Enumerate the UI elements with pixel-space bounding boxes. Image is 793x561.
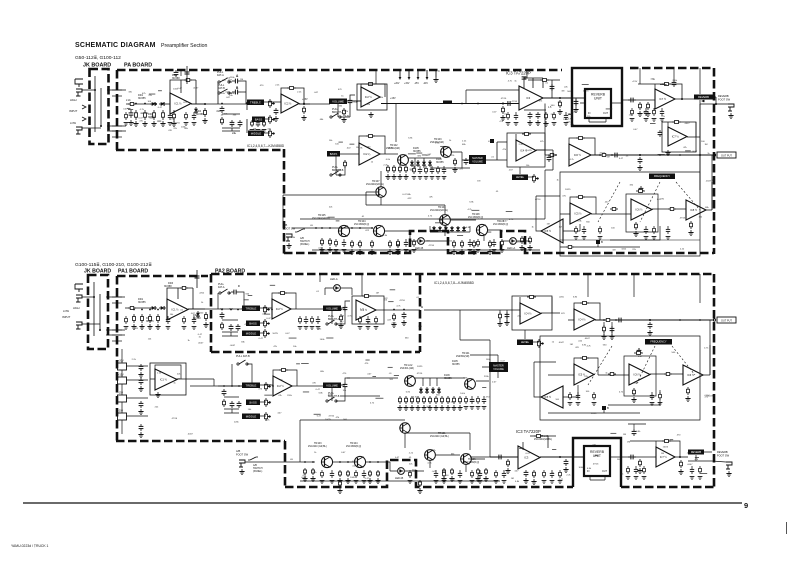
diode fsw 5 bbox=[456, 226, 460, 232]
ground IC7b bbox=[665, 150, 670, 155]
switch bright A (bottom) bbox=[326, 320, 337, 325]
volume wiring bbox=[338, 95, 361, 117]
regulator box 4 bbox=[118, 413, 127, 420]
ground fsw net 2 bbox=[327, 247, 332, 252]
switch FAT-B (bottom) bbox=[237, 360, 248, 365]
resistor IC7 fb (bottom) bbox=[662, 440, 671, 443]
reverb drive link (top) bbox=[466, 90, 519, 103]
gnd bottom input 4 bbox=[155, 324, 160, 329]
ground ab foot (top) bbox=[286, 243, 291, 248]
ground fsw net 10 bbox=[471, 249, 476, 254]
svg-text:IC6 ½: IC6 ½ bbox=[634, 373, 642, 377]
svg-text:PULL FAT-B: PULL FAT-B bbox=[236, 355, 250, 358]
right bus vertical (bottom) bbox=[709, 320, 711, 375]
transistor TR104 (top) bbox=[373, 225, 384, 236]
IC4a outline box (bottom) bbox=[512, 296, 552, 330]
svg-text:IC1 ½: IC1 ½ bbox=[175, 102, 183, 106]
resistor tone R1 bbox=[221, 117, 224, 125]
gnd fsw bottom 10 bbox=[483, 476, 488, 481]
BASS box (top chB) bbox=[327, 151, 340, 157]
transistor TR101 fsw (bottom) bbox=[400, 423, 410, 433]
svg-text:1M: 1M bbox=[511, 478, 514, 480]
svg-text:47/16: 47/16 bbox=[488, 141, 494, 143]
LED-A (top) bbox=[507, 238, 516, 250]
wire ab to TR row bbox=[292, 227, 316, 229]
drop row reverb extra (bottom) bbox=[626, 466, 703, 479]
IC6a fb bbox=[569, 138, 595, 155]
svg-text:IC7 ½: IC7 ½ bbox=[659, 97, 667, 101]
resistor filter top (bottom) bbox=[634, 352, 643, 355]
tone box wiring bbox=[247, 102, 281, 133]
op-amp IC6 1/2 bbox=[569, 144, 591, 166]
capacitor chA tone2 bbox=[229, 324, 234, 331]
junction dots bottom chB bus bbox=[223, 385, 274, 387]
TREBLE pot box (top) bbox=[247, 100, 264, 106]
wire chA final bbox=[376, 309, 420, 311]
svg-text:47/16: 47/16 bbox=[511, 101, 517, 103]
fsw gnd rail (top) bbox=[312, 249, 540, 251]
capacitor IC3 in bbox=[505, 101, 513, 106]
IC1 2/2 wires bbox=[150, 365, 190, 379]
capacitor IC4a out bbox=[547, 155, 552, 162]
svg-text:1M: 1M bbox=[477, 181, 480, 183]
svg-text:2SC1509(R,Q): 2SC1509(R,Q) bbox=[346, 446, 361, 448]
value labels reverb area (top) bbox=[570, 80, 711, 161]
ground foot jack bbox=[728, 113, 733, 118]
svg-text:IC5 ½: IC5 ½ bbox=[544, 229, 552, 233]
resistor fsw bottom 9 bbox=[477, 468, 480, 475]
chB fat wiring (bottom) bbox=[218, 364, 252, 386]
REVERB pot box (top) bbox=[694, 95, 713, 100]
resistor IC1 load (bottom) bbox=[205, 312, 208, 321]
diode D102 (bottom) bbox=[159, 306, 166, 310]
MASTER VOLUME box (top) bbox=[469, 155, 486, 164]
resistor chB bottom net 1 bbox=[399, 396, 402, 404]
op-amp IC8 filter out bbox=[686, 200, 706, 220]
chB long bias wire (bottom) bbox=[340, 395, 380, 397]
capacitor stack (bottom block) bbox=[196, 270, 198, 288]
svg-text:FOOT SW: FOOT SW bbox=[236, 453, 249, 457]
resistor filter out bbox=[668, 208, 676, 211]
svg-text:47/16: 47/16 bbox=[328, 416, 334, 418]
ground input net 2 bbox=[142, 121, 147, 126]
gnd fsw bottom 3 bbox=[337, 478, 342, 483]
svg-text:IC2 ½: IC2 ½ bbox=[277, 384, 285, 388]
pot reverb (top) bbox=[700, 100, 705, 103]
PA board bottom edge (bottom) bbox=[285, 460, 573, 487]
wire FAT bus bbox=[218, 103, 247, 105]
wire IC3 to reverb unit bbox=[572, 97, 585, 99]
svg-text:47/16: 47/16 bbox=[174, 123, 180, 125]
ground fsw net 11 bbox=[487, 249, 492, 254]
value labels volume stage (top) bbox=[314, 89, 384, 121]
ground input net 4 bbox=[160, 121, 165, 126]
svg-text:LEVEL: LEVEL bbox=[516, 175, 525, 179]
ground fsw net 8 bbox=[451, 249, 456, 254]
value labels pass2 fsw (bottom) bbox=[302, 450, 455, 482]
ground reg 4 bbox=[138, 432, 143, 437]
fsw gnd rail (bottom) bbox=[300, 480, 500, 482]
IC2a feedback bbox=[281, 88, 310, 104]
ground chB net 4 bbox=[403, 174, 408, 179]
svg-text:1M: 1M bbox=[426, 241, 429, 243]
op-amp IC2 2/2 chB bbox=[359, 143, 380, 165]
wire reverb out (bottom) bbox=[610, 456, 656, 458]
tie line mid (bottom) bbox=[460, 310, 490, 457]
op-amp IC4 1/2 (bottom) bbox=[520, 303, 541, 324]
resistor fsw net 2 bbox=[329, 238, 332, 246]
wire JK vertical 1 bbox=[94, 76, 96, 132]
capacitor FAT B bbox=[232, 90, 241, 95]
op-amp IC1 1/2 (bottom) bbox=[167, 299, 188, 320]
transistor TR102 (bottom) bbox=[405, 376, 416, 387]
svg-text:10/25: 10/25 bbox=[663, 446, 669, 448]
svg-text:Preamplifier Section: Preamplifier Section bbox=[161, 43, 208, 49]
junction dots fsw rows bbox=[304, 227, 379, 463]
resistor chB toner (bottom) bbox=[223, 399, 226, 407]
svg-text:.0047: .0047 bbox=[301, 477, 307, 479]
pot bass chA bbox=[264, 319, 271, 328]
svg-text:47/16: 47/16 bbox=[172, 418, 178, 420]
ground IC4b below bbox=[601, 334, 606, 339]
resistor IC4a fb (bottom) bbox=[527, 296, 536, 299]
diode fsw 4 bbox=[450, 226, 454, 232]
IC4 to fx wire bbox=[536, 149, 545, 151]
ground IC4b below2 bbox=[609, 334, 614, 339]
IC7a fb loop bbox=[638, 84, 682, 100]
resistor filter gnd2 (bottom) bbox=[687, 387, 690, 395]
diode chB clip 2 bbox=[416, 160, 420, 167]
IC4b below parts (bottom) bbox=[604, 322, 612, 336]
ground reverb drive (bottom) bbox=[563, 467, 568, 472]
supply dots (bottom) bbox=[628, 424, 646, 429]
regulator box 1 bbox=[118, 363, 127, 370]
value labels chB row (top) bbox=[329, 137, 467, 180]
svg-text:10/25: 10/25 bbox=[591, 413, 597, 415]
ground foot jack (bottom) bbox=[726, 471, 731, 476]
svg-text:REVERB: REVERB bbox=[698, 95, 709, 99]
input jack HIGH (bottom) bbox=[76, 295, 82, 302]
ground IC1b (bottom) bbox=[155, 392, 160, 397]
diode D104 (bottom) bbox=[196, 311, 200, 318]
resistor chB bottom net 4 bbox=[417, 396, 420, 404]
svg-text:IC1,2,4,5,6,7,8—KJM4558D: IC1,2,4,5,6,7,8—KJM4558D bbox=[434, 281, 475, 285]
svg-text:2SC1509(R,Q): 2SC1509(R,Q) bbox=[354, 224, 369, 226]
switch bright A bbox=[330, 113, 341, 118]
ground vol bbox=[341, 117, 346, 122]
capacitor IC7a fb bbox=[672, 80, 677, 87]
svg-text:UNIT: UNIT bbox=[593, 454, 601, 458]
gnd chB bottom net 2 bbox=[403, 405, 408, 410]
fx bottom wire (bottom) bbox=[548, 408, 640, 413]
svg-text:IS1588: IS1588 bbox=[172, 77, 180, 80]
reverb unit box (top) bbox=[585, 89, 611, 118]
resistor filter gnd2 bbox=[690, 221, 693, 229]
resistor IC1 bias bbox=[173, 112, 176, 120]
svg-text:B: B bbox=[607, 406, 609, 410]
value labels regulators (bottom) bbox=[132, 359, 194, 436]
resistor chB net 1 bbox=[387, 165, 390, 173]
svg-text:.0047: .0047 bbox=[149, 118, 155, 120]
resistor IC4 in (bottom) bbox=[499, 312, 502, 320]
capacitor C101 bbox=[129, 110, 134, 118]
fsw wires (bottom) bbox=[333, 433, 485, 472]
IC2b outline box bbox=[357, 84, 387, 110]
drop row fx extra (bottom) bbox=[568, 392, 663, 405]
chB vol wiring bbox=[336, 154, 345, 175]
power rail ticks bbox=[400, 70, 436, 79]
fx lower rail (top) bbox=[560, 239, 700, 241]
IC2b fb wire bbox=[361, 84, 385, 97]
wire JK to PA 2 bbox=[107, 125, 126, 127]
gnd chB bottom net 11 bbox=[457, 405, 462, 410]
svg-text:47/16: 47/16 bbox=[417, 373, 423, 375]
regulator wires bbox=[122, 349, 148, 434]
svg-text:TR106: TR106 bbox=[468, 458, 476, 461]
ground fsw net 3 bbox=[349, 249, 354, 254]
ground filter2 bbox=[688, 230, 693, 235]
capacitor FATA (bottom) bbox=[231, 290, 239, 295]
wire chB bus (bottom) bbox=[190, 385, 242, 387]
resistor IC7 in gnd (bottom) bbox=[639, 459, 642, 467]
value labels pass2 input (top) bbox=[123, 95, 189, 130]
ground chB net 1 bbox=[385, 174, 390, 179]
svg-text:MIDDLE: MIDDLE bbox=[251, 131, 262, 135]
svg-text:10/25: 10/25 bbox=[565, 189, 571, 191]
input jack LOW (bottom) bbox=[76, 322, 82, 329]
svg-text:LOW: LOW bbox=[63, 309, 69, 313]
resistor fsw net 6 bbox=[389, 240, 392, 248]
wire stubs TR (bottom) bbox=[365, 360, 486, 398]
reverb out pin wire bbox=[611, 102, 622, 104]
svg-text:BASS: BASS bbox=[249, 321, 257, 325]
capacitor filter top (bottom) bbox=[637, 348, 642, 355]
capacitor chB tone3 (bottom) bbox=[237, 401, 242, 408]
svg-text:LED-B: LED-B bbox=[395, 476, 403, 480]
svg-text:TR107: TR107 bbox=[372, 180, 380, 183]
resistor IC7 in gnd bbox=[639, 102, 642, 110]
svg-text:TR104: TR104 bbox=[358, 220, 366, 223]
gnd chB bottom net 10 bbox=[451, 405, 456, 410]
pin stubs PA left edge (bottom) bbox=[112, 297, 122, 341]
svg-text:10/25: 10/25 bbox=[417, 366, 423, 368]
resistor IC6a fb bbox=[576, 137, 585, 140]
wire stubs fsw (top) bbox=[328, 210, 513, 235]
supply drops (bottom) bbox=[320, 274, 700, 350]
ground out bbox=[637, 165, 642, 170]
svg-text:OUT: OUT bbox=[602, 470, 608, 473]
ground chB net 2 bbox=[391, 174, 396, 179]
IC3 top components bbox=[528, 80, 560, 98]
svg-text:IC6 ½: IC6 ½ bbox=[687, 373, 695, 377]
resistor IC2a load bbox=[303, 106, 306, 114]
MIDDLE box (chB bottom) bbox=[242, 414, 260, 420]
svg-text:OUT: OUT bbox=[603, 112, 609, 115]
svg-text:IS1555: IS1555 bbox=[138, 97, 146, 100]
svg-text:IS1555: IS1555 bbox=[413, 150, 421, 153]
pot bass (top) bbox=[269, 115, 276, 124]
diode fsw 2 bbox=[438, 226, 442, 232]
capacitor FAT A bbox=[232, 79, 241, 84]
ground chA vol bbox=[338, 323, 343, 328]
svg-text:VOLUME: VOLUME bbox=[493, 368, 504, 371]
LEVEL box (bottom) bbox=[517, 340, 533, 346]
diode chB clip bottom 3 bbox=[431, 387, 435, 394]
OUT PUT box (bottom) bbox=[717, 317, 736, 323]
resistor fsw bottom 7 bbox=[443, 468, 446, 475]
TR107 wiring bbox=[366, 171, 381, 205]
IC5b wires bbox=[536, 196, 580, 231]
resistor IC7b fb bbox=[672, 121, 681, 124]
drop row input extra (top) bbox=[124, 112, 197, 125]
svg-text:BASS: BASS bbox=[255, 117, 263, 121]
ground IC7 bias bbox=[645, 111, 650, 116]
capacitor chB tone2 (bottom) bbox=[230, 401, 235, 408]
svg-text:1M: 1M bbox=[623, 434, 626, 436]
svg-text:REVERB: REVERB bbox=[691, 451, 702, 454]
value labels fx area (top) bbox=[547, 179, 716, 251]
BASS box (chB bottom) bbox=[246, 400, 260, 406]
svg-text:(PANEL): (PANEL) bbox=[253, 470, 262, 473]
ground IC3 zobel bbox=[557, 109, 562, 114]
pot bass chB bbox=[265, 398, 272, 407]
IC5a fb bbox=[570, 197, 596, 214]
ground reg 2 bbox=[138, 386, 143, 391]
wire IC1 out (bottom) bbox=[188, 308, 215, 310]
wire stubs input (top) bbox=[127, 91, 162, 121]
wire reverb to IC7 input bbox=[622, 99, 655, 101]
foot jack wire (bottom) bbox=[712, 461, 726, 462]
IC2chB fb bbox=[340, 136, 385, 154]
resistor fsw net 10 bbox=[473, 240, 476, 248]
capacitor IC4 in (bottom) bbox=[505, 312, 510, 319]
ground IC3 out2 bbox=[535, 120, 540, 125]
ground fsw net 6 bbox=[387, 249, 392, 254]
value labels FAT/tone (top) bbox=[220, 77, 271, 135]
VOLUME box (chA bottom) bbox=[323, 306, 341, 312]
wire JK vertical 2 bbox=[100, 88, 102, 126]
op-amp IC1 1/2 bbox=[170, 93, 191, 114]
resistor fsw bottom 10 bbox=[485, 468, 488, 475]
VOLUME box (chB bottom) bbox=[323, 383, 341, 389]
drop row chA extra (bottom) bbox=[298, 316, 321, 329]
wire stubs reverb (top) bbox=[568, 84, 691, 154]
resistor chB bottom net 6 bbox=[429, 396, 432, 404]
resistor IC6a in bbox=[548, 154, 556, 157]
resistor filter gnd1 (bottom) bbox=[633, 388, 636, 396]
transistor TR103 bbox=[441, 147, 452, 158]
resistor fsw net 4 bbox=[359, 240, 362, 248]
FREQUENCY pot box (top) bbox=[649, 174, 675, 180]
capacitor reverb drive bbox=[574, 99, 579, 106]
regulator box 2 bbox=[118, 377, 127, 384]
wire IC2chB out bbox=[380, 153, 398, 155]
diode fsw 3 bbox=[444, 226, 448, 232]
gnd fsw bottom 8 bbox=[449, 476, 454, 481]
gnd fsw bottom 4 bbox=[345, 478, 350, 483]
IC1b outline box (bottom) bbox=[150, 363, 186, 395]
right bus vertical 2 (top) bbox=[711, 155, 713, 210]
capacitor chB out bbox=[464, 158, 469, 165]
svg-text:IC1 ½: IC1 ½ bbox=[160, 378, 168, 382]
svg-text:.0047: .0047 bbox=[193, 87, 199, 89]
reverb foot jack bbox=[728, 104, 734, 111]
pot treble (top) bbox=[269, 99, 276, 108]
tone lower wires bbox=[222, 114, 240, 131]
reverb drive coupling bbox=[575, 98, 577, 107]
value labels pass2 fx (bottom) bbox=[555, 347, 713, 401]
ground C101 bbox=[128, 120, 133, 125]
value labels chB tone (bottom) bbox=[249, 371, 348, 421]
svg-text:REVERB: REVERB bbox=[717, 450, 728, 454]
value labels pass2 chA (bottom) bbox=[246, 291, 420, 341]
fx outline (bottom) bbox=[540, 336, 700, 420]
svg-text:9: 9 bbox=[744, 501, 748, 510]
drop row chB extra (top) bbox=[412, 166, 447, 179]
drop row reverb extra (top) bbox=[630, 108, 665, 121]
svg-text:HIGH: HIGH bbox=[70, 98, 77, 102]
svg-text:VOLUME: VOLUME bbox=[332, 99, 344, 103]
chA tone out wires bbox=[260, 308, 272, 333]
capacitor IC3 out2 bbox=[536, 112, 541, 119]
wire chA to IC4 bbox=[424, 309, 520, 311]
wire IC7 out (bottom) bbox=[675, 456, 688, 458]
ground fsw net 7 bbox=[395, 249, 400, 254]
svg-text:FREQUENCY: FREQUENCY bbox=[654, 174, 671, 178]
ground chA out bbox=[391, 322, 396, 327]
svg-text:TREBLE: TREBLE bbox=[246, 383, 257, 387]
ground filter1 (bottom) bbox=[631, 397, 636, 402]
svg-text:SCHEMATIC DIAGRAM: SCHEMATIC DIAGRAM bbox=[75, 42, 156, 49]
svg-text:TR108: TR108 bbox=[472, 213, 480, 216]
reverb shield enclosure (bottom) bbox=[573, 438, 621, 487]
capacitor IC3 out1 (bottom) bbox=[524, 470, 529, 477]
capacitor bright A (bottom) bbox=[343, 305, 348, 312]
IC3 out wire bbox=[543, 97, 572, 99]
svg-text:1M: 1M bbox=[570, 344, 573, 346]
wire IC7a out bbox=[675, 98, 694, 100]
svg-text:1M: 1M bbox=[561, 91, 564, 93]
fx dashed gang lines (bottom) bbox=[588, 346, 695, 385]
svg-text:47/16: 47/16 bbox=[399, 300, 405, 302]
wire chA out bbox=[291, 308, 323, 310]
junction dots bottom chA bus bbox=[133, 309, 405, 311]
level wiring (bottom) bbox=[525, 330, 539, 342]
capacitor tone C3 bbox=[238, 120, 243, 127]
resistor IC3 out2 (bottom) bbox=[533, 470, 536, 478]
diode chB clip 4 bbox=[428, 160, 432, 167]
ic3 bus join (bottom) bbox=[470, 456, 490, 458]
transistor TR105 (top) bbox=[338, 225, 349, 236]
svg-text:VOLUME: VOLUME bbox=[326, 383, 338, 387]
capacitor chA tone3 bbox=[236, 324, 241, 331]
svg-text:FAT-A: FAT-A bbox=[217, 74, 224, 77]
svg-text:1M: 1M bbox=[240, 79, 243, 81]
svg-text:-20V: -20V bbox=[423, 83, 428, 85]
value labels chA tone (bottom) bbox=[220, 308, 352, 348]
resistor fsw bottom 11 bbox=[339, 480, 342, 487]
resistor filter top bbox=[636, 190, 645, 193]
ground fsw net 1 bbox=[319, 247, 324, 252]
svg-text:-15V: -15V bbox=[118, 392, 123, 395]
svg-text:IS1555: IS1555 bbox=[444, 377, 452, 380]
FAT wiring bbox=[218, 81, 246, 104]
level wiring bbox=[520, 167, 534, 177]
resistor IC3 fb bbox=[540, 79, 549, 82]
diode chB clip bottom 1 bbox=[419, 387, 423, 394]
resistor filter gnd1 bbox=[635, 222, 638, 230]
capacitor out series bbox=[612, 153, 620, 158]
